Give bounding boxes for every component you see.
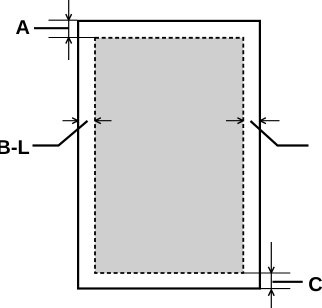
label A [16,17,30,39]
dimension A: extension line at paper top edge [49,19,78,21]
printable area (gray, dashed border) [95,38,243,273]
svg-text:C: C [308,274,322,296]
dimension B-L: right arrow (points left to printable-area left edge) [95,118,112,124]
label C [308,274,322,296]
dimension A: up arrowhead at printable-area top edge [66,38,72,44]
dimension C: extension line at paper bottom edge [260,288,290,290]
dimension B-R: right arrow (points left to paper right edge) [260,118,280,124]
label A leader line [34,27,69,29]
label B-L [0,137,30,159]
label C leader line [273,281,303,283]
dimension B-L: left arrow (points right to paper left edge) [63,118,79,124]
paper sheet outline [78,21,260,289]
dimension C: up arrowhead at paper bottom edge [268,290,274,296]
dimension C: vertical dimension line [270,242,272,308]
svg-text:A: A [16,17,30,39]
dimension A: down arrowhead at paper top edge [66,14,72,20]
dimension A: vertical dimension line [68,0,70,60]
svg-text:B-L: B-L [0,137,30,159]
dimension B-R: left arrow (points right to printable-area right edge) [226,118,243,124]
B-R leader line (runs off right edge) [251,121,309,146]
label B-L leader line [33,121,88,146]
dimension C: down arrowhead at printable-area bottom edge [268,267,274,273]
dimension A: extension line at printable-area top edge [49,37,96,39]
dimension C: extension line at printable-area bottom edge [243,272,290,274]
